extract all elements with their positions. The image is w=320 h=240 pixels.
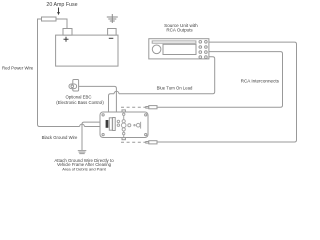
svg-text:20 Amp Fuse: 20 Amp Fuse	[46, 2, 77, 8]
svg-text:Red Power Wire: Red Power Wire	[2, 65, 34, 70]
svg-text:RCA Outputs: RCA Outputs	[166, 28, 193, 33]
svg-text:Blue Turn On Lead: Blue Turn On Lead	[157, 85, 193, 90]
svg-text:RCA Interconnects: RCA Interconnects	[241, 79, 280, 84]
svg-text:(Electronic Bass Control): (Electronic Bass Control)	[56, 100, 104, 105]
svg-text:Area of Debris and Paint: Area of Debris and Paint	[62, 167, 106, 172]
svg-text:Black Ground Wire: Black Ground Wire	[42, 135, 78, 140]
